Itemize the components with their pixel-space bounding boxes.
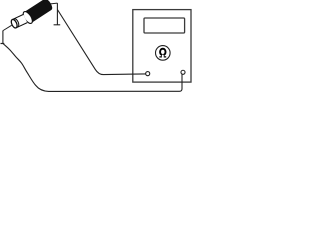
body right cap xyxy=(42,0,54,11)
right probe foot xyxy=(54,24,61,26)
component left lead xyxy=(3,25,12,31)
meter display window xyxy=(144,18,185,33)
left probe vertical xyxy=(2,31,4,44)
ferrule (white cylinder) xyxy=(10,14,27,28)
background xyxy=(0,0,195,97)
ohm glyph xyxy=(159,48,166,58)
wire from right probe to left terminal xyxy=(57,10,145,75)
ohm symbol circle xyxy=(156,46,171,61)
component right lead xyxy=(50,2,57,5)
multimeter body M1 xyxy=(133,10,191,83)
right probe vertical xyxy=(56,3,58,25)
left probe foot xyxy=(1,43,5,45)
right terminal xyxy=(181,70,185,74)
body left cap ellipse (white) xyxy=(21,10,34,25)
ferrule face ellipse xyxy=(10,19,18,29)
left terminal xyxy=(146,72,150,76)
suppressor body (black cylinder) xyxy=(21,0,54,25)
wire from left probe to right terminal xyxy=(3,44,182,92)
ferrule rim inner ellipse xyxy=(12,18,20,28)
